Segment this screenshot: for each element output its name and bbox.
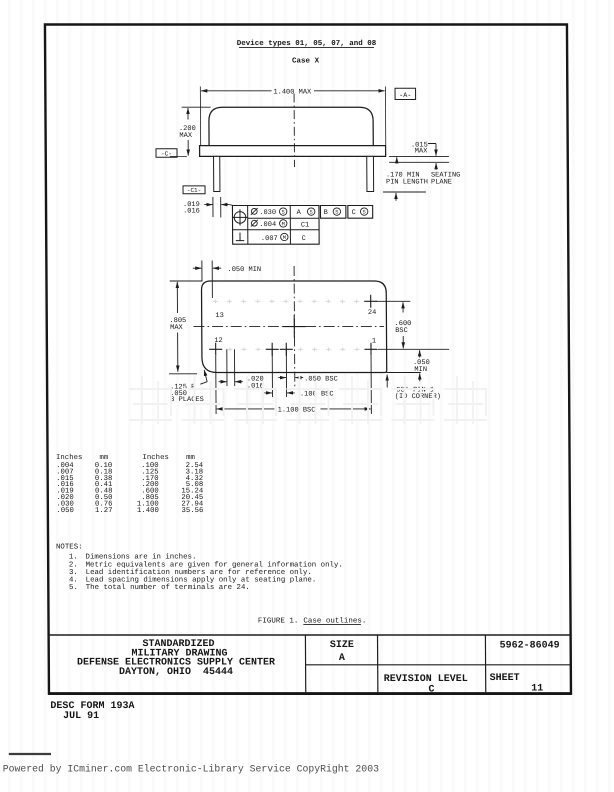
dimension .805 MAX: [170, 280, 203, 282]
svg-text:1: 1: [372, 338, 376, 346]
dimension 1.400 MAX extension lines: [199, 87, 201, 146]
datum box -C-: [156, 149, 177, 158]
svg-text:.016: .016: [183, 208, 200, 216]
faint pin marks top row: [213, 300, 359, 304]
svg-text:JUL 91: JUL 91: [63, 711, 99, 722]
dimension .600 BSC: [376, 300, 411, 302]
svg-text:DAYTON, OHIO 45444: DAYTON, OHIO 45444: [119, 667, 233, 678]
page border frame: [45, 25, 571, 694]
svg-text:S: S: [335, 210, 338, 216]
svg-text:1.400 MAX: 1.400 MAX: [273, 88, 312, 96]
svg-text:3 PLACES: 3 PLACES: [170, 396, 204, 404]
seating plane line: [389, 161, 449, 163]
svg-text:5.: 5.: [69, 584, 78, 592]
svg-text:C1: C1: [301, 221, 309, 229]
dimension .100 BSC: [271, 349, 273, 397]
svg-text:5962-86049: 5962-86049: [500, 640, 560, 651]
svg-text:-A-: -A-: [399, 92, 411, 100]
left pin side view: [214, 156, 220, 191]
right pin side view: [367, 156, 374, 191]
horizontal centerline bottom view: [193, 326, 384, 328]
feature control frame table: [232, 206, 319, 245]
svg-text:.030: .030: [259, 209, 276, 217]
svg-text:The total number of terminals: The total number of terminals are 24.: [86, 584, 250, 592]
flange bottom extension line right: [389, 155, 449, 157]
svg-text:FIGURE 1.: FIGURE 1.: [258, 618, 299, 626]
datum box -A-: [395, 88, 416, 99]
svg-text:Inches: Inches: [56, 454, 82, 462]
svg-text:M: M: [282, 222, 285, 228]
svg-text:M: M: [283, 235, 286, 241]
bottom view package outline: [201, 281, 386, 373]
svg-text:35.56: 35.56: [181, 507, 203, 515]
svg-text:Dimensions are in inches.: Dimensions are in inches.: [86, 554, 197, 562]
watermark: [130, 377, 486, 423]
svg-text:MIN: MIN: [414, 366, 427, 374]
svg-text:1.100 BSC: 1.100 BSC: [278, 407, 316, 415]
pin 7 cross: [280, 343, 293, 356]
dimension .050 MIN top: [201, 261, 203, 282]
pin 1 cross: [364, 343, 377, 356]
svg-text:S: S: [363, 210, 366, 216]
leader to feature control frame: [229, 204, 233, 207]
datum reference box B (S): [320, 206, 345, 219]
FCF row2: dia .004 (M) | C1: [251, 220, 258, 227]
svg-text:Device types 01, 05, 07, and 0: Device types 01, 05, 07, and 08: [237, 40, 377, 48]
leader to corner radius: [204, 370, 207, 382]
svg-text:MAX: MAX: [170, 324, 183, 332]
svg-text:BSC: BSC: [395, 327, 408, 335]
svg-text:13: 13: [215, 312, 223, 320]
svg-text:.050 MIN: .050 MIN: [227, 266, 261, 274]
pin 24 cross: [364, 295, 377, 308]
svg-text:11: 11: [531, 684, 543, 695]
dimension .020/.016 lead width: [226, 349, 228, 386]
svg-text:S: S: [310, 210, 313, 216]
faint pin marks bottom row: [227, 348, 359, 352]
FCF row1: dia .030 (S) | A (S) | B (S) | C (S): [251, 208, 258, 215]
pin 8 cross: [266, 343, 279, 356]
pin length dimension upper arrow: [396, 157, 398, 163]
svg-text:24: 24: [368, 309, 376, 317]
position symbol: [232, 209, 248, 225]
svg-text:REVISION LEVEL: REVISION LEVEL: [384, 674, 468, 685]
dimension 1.400 MAX: [201, 90, 271, 92]
leader 90 deg pin 1 ID corner: [386, 375, 388, 388]
dimension 1.100 BSC: [215, 356, 217, 414]
svg-text:1.400: 1.400: [137, 507, 159, 515]
svg-text:B: B: [324, 209, 328, 217]
svg-text:1.: 1.: [69, 554, 78, 562]
svg-text:C: C: [428, 684, 434, 695]
svg-text:MAX: MAX: [415, 148, 428, 156]
svg-text:-C1-: -C1-: [187, 187, 201, 194]
FCF row3: perpendicularity | .007 (M) | C: [236, 233, 244, 241]
svg-text:NOTES:: NOTES:: [56, 544, 83, 552]
svg-text:C: C: [352, 209, 356, 217]
svg-text:MAX: MAX: [179, 132, 192, 140]
vertical centerline of side view: [293, 94, 295, 168]
pin 1 row extension line right: [378, 348, 449, 350]
svg-text:mm: mm: [186, 454, 195, 462]
svg-text:-C-: -C-: [161, 150, 172, 157]
svg-text:S: S: [282, 210, 285, 216]
scan artifact dash: [9, 753, 51, 755]
svg-text:A: A: [339, 653, 345, 664]
svg-text:mm: mm: [99, 454, 108, 462]
svg-text:.007: .007: [261, 235, 278, 243]
svg-text:1.27: 1.27: [95, 507, 113, 515]
svg-text:12: 12: [214, 337, 222, 345]
svg-text:Powered by ICminer.com Electro: Powered by ICminer.com Electronic-Librar…: [3, 764, 379, 775]
case body outline: [209, 107, 373, 145]
datum box -C1-: [183, 186, 205, 194]
svg-text:C: C: [302, 235, 306, 243]
svg-text:Case X: Case X: [292, 58, 320, 66]
center cross: [283, 326, 306, 328]
svg-text:PIN LENGTH: PIN LENGTH: [386, 179, 428, 187]
dimension .200 MAX: [182, 106, 211, 108]
title block lines: [49, 634, 571, 636]
svg-text:SIZE: SIZE: [330, 640, 354, 651]
svg-text:SHEET: SHEET: [490, 673, 520, 684]
svg-text:PLANE: PLANE: [431, 179, 452, 187]
datum reference box C (S): [348, 206, 373, 219]
svg-text:.004: .004: [259, 221, 276, 229]
case flange / base bar: [200, 146, 386, 157]
dimension .050 MIN right: [419, 350, 421, 357]
svg-text:Inches: Inches: [143, 454, 169, 462]
vertical centerline bottom view: [293, 266, 296, 389]
pin 12 cross: [209, 343, 222, 356]
bottom edge extension line right: [386, 372, 420, 374]
dimension .050 BSC: [285, 349, 287, 381]
pin end extension line: [383, 191, 426, 193]
svg-text:.050: .050: [56, 507, 74, 515]
svg-text:.050 BSC: .050 BSC: [304, 375, 338, 383]
